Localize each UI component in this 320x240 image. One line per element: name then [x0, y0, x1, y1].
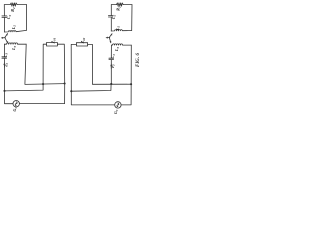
- right leg of lower-right loop down to source G2: [121, 45, 131, 105]
- svg-text:L2: L2: [11, 25, 17, 31]
- svg-text:C3: C3: [3, 53, 9, 58]
- AC source G1 circle: [13, 101, 19, 107]
- coil L3' (coupled secondary, right): [111, 44, 131, 45]
- svg-text:L3: L3: [11, 45, 17, 51]
- svg-text:L3: L3: [114, 46, 120, 52]
- svg-text:FIG. 6: FIG. 6: [136, 53, 141, 67]
- left leg of lower-right loop with capacitor gap: [110, 45, 112, 84]
- mutual inductance arrow (right circuit): [107, 34, 112, 43]
- node dot left source: [3, 90, 5, 92]
- mutual inductance arrow (left circuit): [2, 34, 8, 43]
- coil L3 (coupled secondary, left): [4, 43, 26, 44]
- wire: top-left loop left edge (gap for C2): [3, 5, 5, 32]
- AC source G2 circle: [115, 102, 121, 108]
- wire: top-right loop right edge: [131, 5, 133, 31]
- junction dot right circuit right leg: [130, 83, 132, 85]
- svg-text:e3: e3: [3, 63, 9, 67]
- svg-text:L2: L2: [115, 25, 121, 31]
- branch-2 left wire down to source G2: [71, 44, 115, 105]
- svg-text:C2: C2: [111, 14, 117, 19]
- wire: top-right loop top edge: [111, 4, 132, 6]
- wire: top-right loop left edge (gap for C2'): [110, 5, 112, 31]
- svg-text:Z01: Z01: [51, 37, 57, 44]
- svg-text:C2: C2: [6, 14, 12, 19]
- capacitor C2' plates: [108, 16, 113, 17]
- node dot branch-2: [70, 90, 72, 92]
- svg-text:e3: e3: [110, 64, 116, 68]
- left leg of lower-left loop with capacitor gap: [3, 44, 5, 91]
- branch-1 left wire: [43, 44, 46, 84]
- svg-text:G3: G3: [114, 109, 119, 114]
- svg-text:C3: C3: [110, 54, 116, 59]
- capacitor C3 plates: [2, 57, 7, 58]
- svg-text:R2: R2: [116, 6, 122, 11]
- svg-text:Z02: Z02: [80, 37, 86, 44]
- EMF e3 arrow: [3, 64, 5, 67]
- resistor R2' zigzag: [117, 3, 124, 6]
- wire: top-left loop right edge: [25, 5, 27, 31]
- svg-text:G3: G3: [13, 107, 18, 112]
- wire: top-left loop top edge: [4, 4, 26, 6]
- capacitor C2 plates: [2, 16, 7, 17]
- wire C from branch-2 node to right junction: [71, 84, 111, 91]
- branch-2 right wire + wire D to right circuit: [88, 44, 132, 84]
- capacitor C3' plates: [109, 58, 114, 59]
- junction dot right circuit left leg: [110, 83, 112, 85]
- impedance box Z02: [76, 43, 87, 46]
- junction dot branch-1 right: [64, 82, 66, 84]
- coil L2 on bottom edge of top-left loop: [4, 30, 26, 32]
- impedance box Z01: [47, 43, 58, 47]
- right leg of lower-left loop + wire B to branch-1: [25, 44, 65, 84]
- resistor R2 zigzag: [10, 3, 17, 6]
- wire from left node down to source G1: [5, 91, 14, 104]
- coil L2' on bottom edge of top-right loop: [111, 30, 132, 31]
- EMF e3' arrow: [110, 65, 112, 68]
- svg-text:R2: R2: [10, 7, 16, 12]
- bus wire from source node up to branch-1 junction: [5, 84, 44, 91]
- junction dot branch-1 left: [42, 83, 44, 85]
- branch-1 right wire down to source G1: [19, 44, 64, 103]
